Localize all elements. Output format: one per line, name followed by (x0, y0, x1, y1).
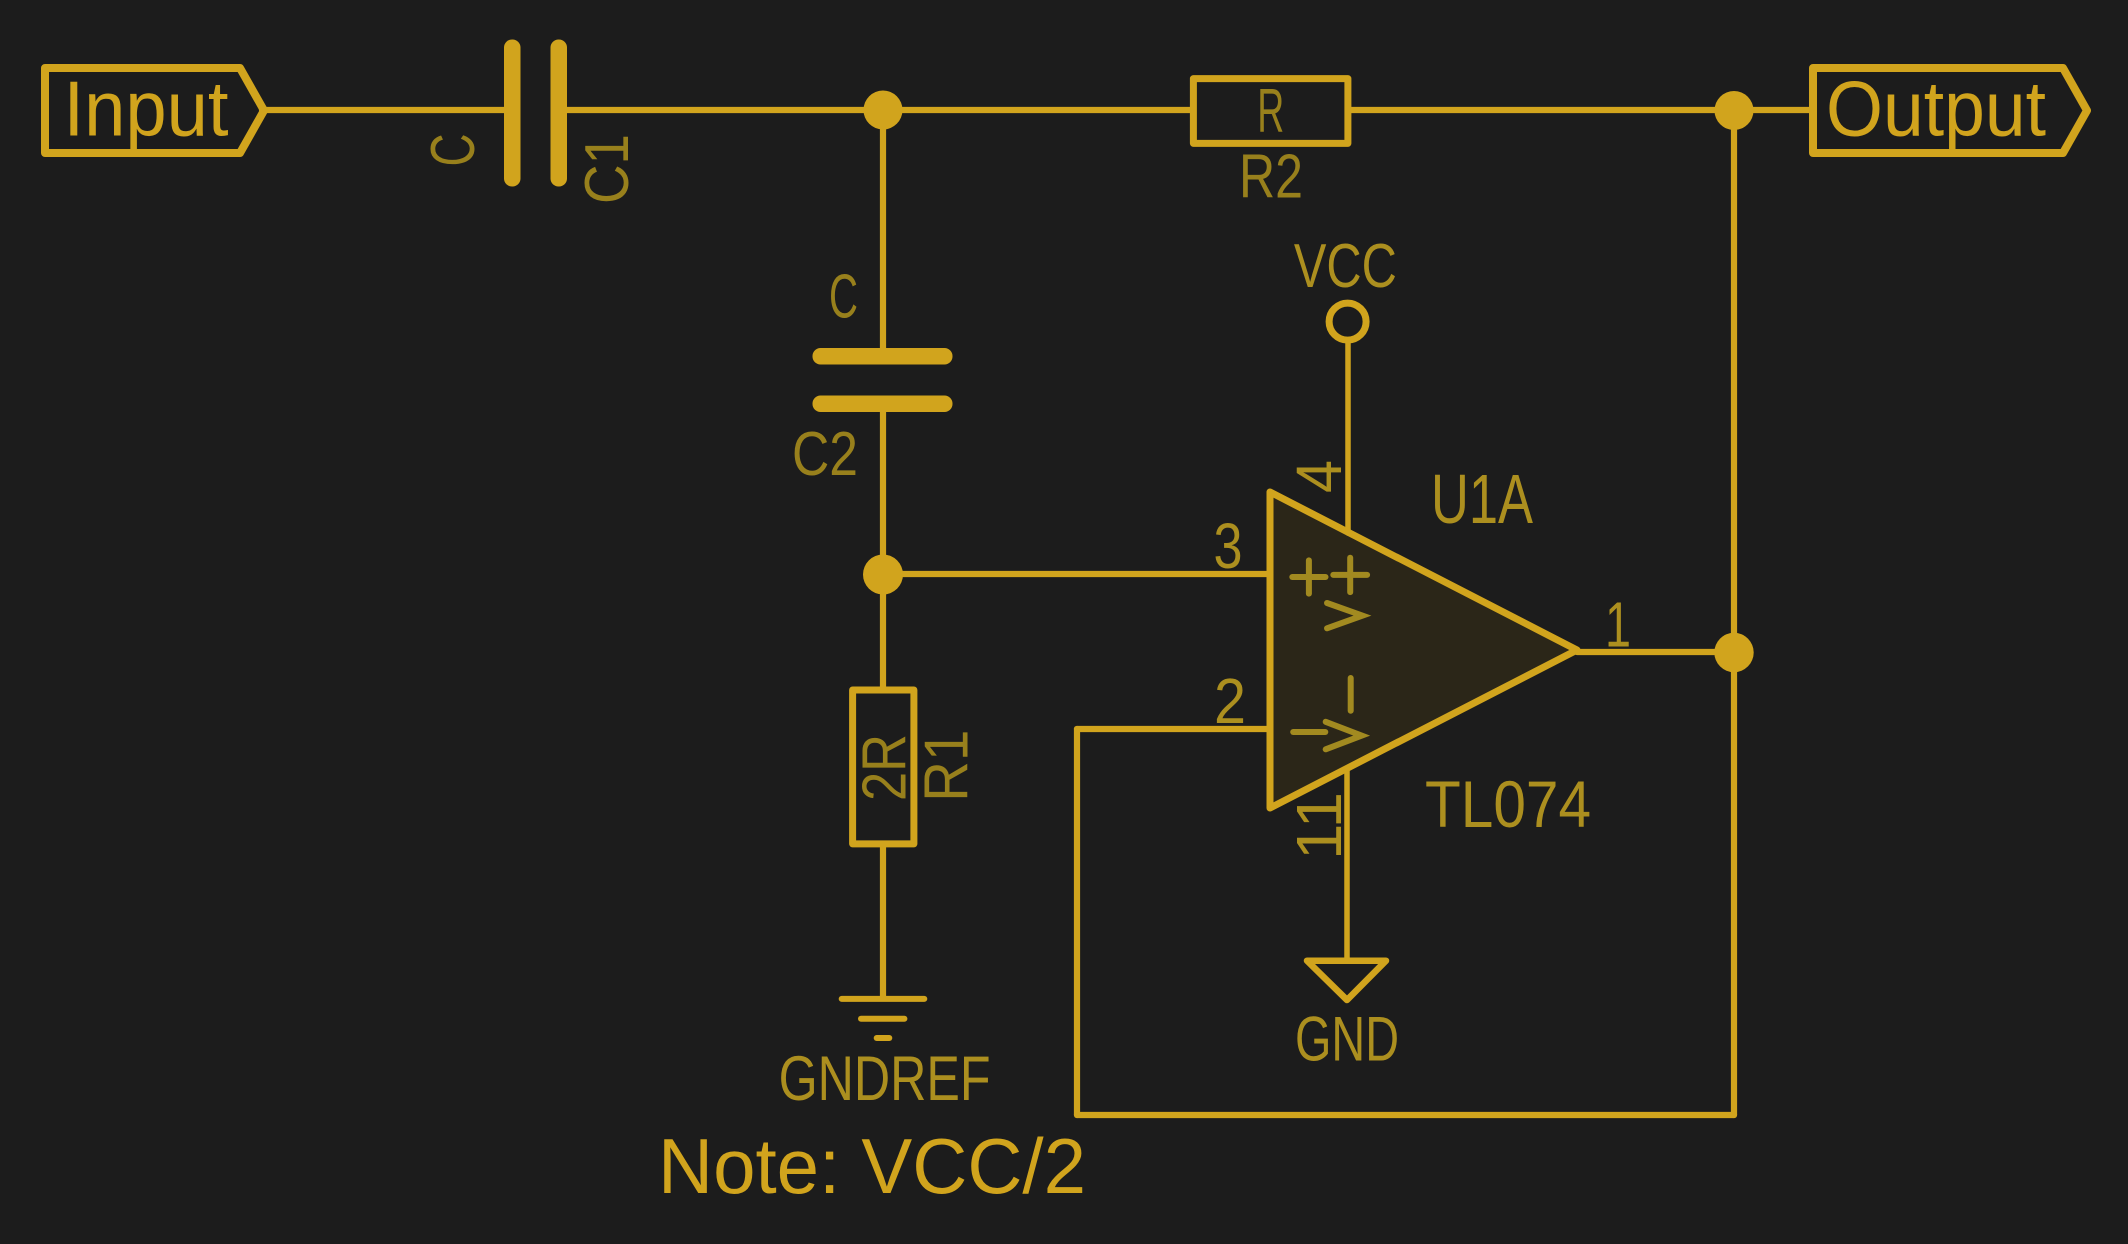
wire feedback left vertical (1074, 729, 1080, 1115)
wire input to C1 (262, 107, 506, 113)
svg-text:R: R (1257, 77, 1284, 146)
wire R2 to output node (1350, 107, 1813, 113)
pin 11 name V- (1326, 678, 1362, 749)
hierarchical label Input (45, 65, 264, 154)
pin 11 wire to GND (1344, 768, 1350, 958)
node C junction (1714, 633, 1753, 672)
capacitor C2 (813, 348, 953, 412)
svg-text:C1: C1 (573, 134, 642, 204)
wire C2 to node B (880, 410, 886, 574)
ground GNDREF (842, 999, 925, 1038)
svg-text:VCC: VCC (1294, 232, 1397, 301)
node B junction (863, 555, 903, 595)
wire op-amp pin 1 to node C (1577, 649, 1734, 655)
power symbol VCC (1329, 303, 1366, 533)
svg-text:Note: VCC/2: Note: VCC/2 (658, 1122, 1086, 1210)
svg-text:1: 1 (1605, 589, 1631, 661)
output node junction (1715, 91, 1754, 130)
svg-text:GND: GND (1295, 1005, 1399, 1075)
svg-text:2R: 2R (851, 734, 920, 801)
hierarchical label Output (1813, 65, 2087, 154)
svg-text:TL074: TL074 (1425, 767, 1591, 841)
svg-text:C: C (419, 134, 488, 167)
power symbol GND (1307, 961, 1386, 1000)
wire R1 to GNDREF (880, 846, 886, 998)
resistor R2 (1193, 79, 1348, 144)
svg-text:4: 4 (1283, 460, 1355, 493)
svg-text:Output: Output (1826, 65, 2046, 153)
wire node B down to R1 (880, 574, 886, 688)
svg-text:R1: R1 (913, 730, 982, 802)
svg-text:U1A: U1A (1431, 460, 1533, 538)
pin 2 name - (1293, 729, 1325, 735)
svg-text:C: C (829, 263, 858, 332)
svg-text:11: 11 (1283, 792, 1355, 860)
svg-text:Input: Input (64, 65, 229, 153)
op-amp U1 triangle (1270, 492, 1577, 808)
svg-text:C2: C2 (792, 420, 858, 489)
node A junction (864, 91, 903, 130)
wire output node down right side of feedback loop (1731, 110, 1737, 1115)
svg-text:2: 2 (1214, 665, 1246, 737)
svg-text:3: 3 (1214, 510, 1243, 582)
svg-text:GNDREF: GNDREF (779, 1044, 991, 1114)
svg-text:R2: R2 (1239, 143, 1303, 212)
pin 3 name + (1292, 560, 1325, 593)
pin 4 name V+ (1327, 558, 1367, 629)
capacitor C1 (504, 40, 567, 187)
wire feedback to op-amp pin 2 (1077, 726, 1268, 732)
wire feedback bottom (1077, 1112, 1734, 1118)
wire node A down to C2 (880, 110, 886, 350)
resistor R1 (853, 690, 914, 844)
wire node B to op-amp pin 3 (883, 571, 1268, 577)
wire C1 to R2 through node A (565, 107, 1191, 113)
